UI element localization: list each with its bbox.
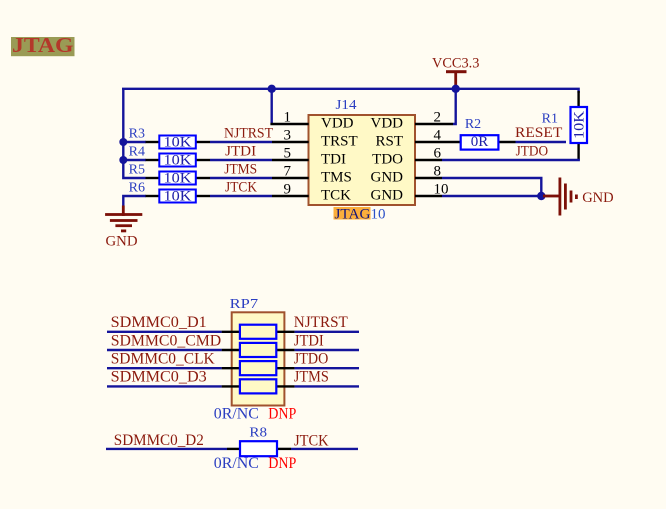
svg-text:0R/NC: 0R/NC (214, 405, 259, 422)
wire net JTDI bottom (294, 332, 359, 350)
wire net RESET (515, 125, 566, 142)
wire VCC bus horizontal (122, 89, 579, 93)
svg-text:8: 8 (434, 164, 442, 180)
ground GND left (105, 206, 142, 250)
svg-text:JTDO: JTDO (294, 351, 329, 368)
svg-text:SDMMC0_D1: SDMMC0_D1 (111, 314, 207, 331)
svg-text:VDD: VDD (371, 115, 404, 131)
resistor R5 (129, 162, 210, 186)
svg-text:2: 2 (434, 110, 442, 126)
pin 9 (272, 182, 351, 204)
resistor network RP7 (230, 297, 285, 405)
svg-text:R5: R5 (129, 162, 145, 177)
svg-text:9: 9 (284, 182, 292, 198)
svg-text:10: 10 (371, 206, 386, 222)
svg-text:GND: GND (371, 187, 404, 203)
svg-text:7: 7 (284, 164, 292, 180)
svg-text:RESET: RESET (515, 125, 562, 141)
svg-text:JTAG: JTAG (12, 33, 74, 57)
resistor R8 (227, 425, 291, 456)
svg-text:TCK: TCK (321, 187, 351, 203)
svg-text:R4: R4 (129, 145, 145, 160)
svg-text:3: 3 (284, 128, 292, 144)
ground GND right (543, 178, 614, 216)
svg-text:JTMS: JTMS (294, 369, 329, 386)
wire net JTMS (210, 161, 272, 178)
pin 5 (272, 146, 346, 168)
svg-text:6: 6 (434, 146, 442, 162)
wire net JTDO (442, 144, 580, 161)
svg-text:JTDO: JTDO (516, 144, 549, 160)
svg-text:0R: 0R (471, 134, 489, 150)
svg-text:JTCK: JTCK (225, 179, 257, 195)
resistor R3 (129, 127, 210, 151)
svg-text:10K: 10K (164, 135, 192, 151)
svg-text:R3: R3 (129, 127, 145, 142)
svg-text:JTCK: JTCK (294, 433, 329, 450)
RP7 element 1 (222, 325, 295, 339)
power symbol VCC3.3 (432, 55, 480, 89)
node junction rail R3 (119, 138, 127, 146)
svg-text:R1: R1 (542, 111, 558, 126)
svg-text:1: 1 (284, 110, 292, 126)
svg-text:SDMMC0_D2: SDMMC0_D2 (114, 432, 204, 449)
svg-text:5: 5 (284, 146, 292, 162)
svg-text:R2: R2 (465, 117, 481, 132)
wire R4 left (123, 159, 146, 161)
wire net NJTRST (210, 126, 273, 142)
wire net SDMMC0_D1 (107, 314, 222, 332)
wire net JTDI (210, 144, 272, 161)
label JTAG10 under connector (334, 206, 386, 222)
wire R6 left elbow to ground (123, 196, 146, 207)
svg-text:VDD: VDD (321, 115, 354, 131)
pin 8 (371, 164, 443, 186)
svg-text:DNP: DNP (268, 405, 296, 422)
node junction bus pin1 (268, 85, 276, 93)
wire net SDMMC0_D2 (106, 432, 227, 449)
svg-text:SDMMC0_D3: SDMMC0_D3 (111, 369, 207, 386)
pin 3 (272, 128, 358, 150)
wire net SDMMC0_D3 (107, 369, 222, 387)
svg-text:NJTRST: NJTRST (294, 314, 348, 331)
wire R3 left (123, 141, 146, 143)
svg-text:10K: 10K (572, 111, 588, 139)
svg-text:TDI: TDI (321, 151, 346, 167)
svg-text:R6: R6 (129, 180, 145, 195)
svg-text:JTMS: JTMS (224, 161, 257, 177)
resistor R6 (129, 180, 210, 204)
RP7 element 2 (222, 343, 295, 357)
pin 1 (270, 110, 353, 132)
svg-text:JTDI: JTDI (294, 332, 324, 349)
wire pin8 elbow down (442, 178, 541, 196)
svg-text:J14: J14 (336, 98, 357, 113)
svg-text:RST: RST (375, 133, 403, 149)
pin 6 (372, 146, 442, 168)
svg-text:TDO: TDO (372, 151, 403, 167)
svg-text:TRST: TRST (321, 133, 358, 149)
wire pin2 drop (453, 89, 456, 124)
wire left rail down to R5 row (123, 89, 145, 178)
node junction rail R4 (119, 156, 127, 164)
svg-text:0R/NC: 0R/NC (214, 455, 259, 472)
svg-text:VCC3.3: VCC3.3 (432, 55, 480, 71)
svg-text:SDMMC0_CMD: SDMMC0_CMD (111, 332, 222, 349)
svg-text:4: 4 (434, 128, 442, 144)
svg-text:10K: 10K (164, 189, 192, 205)
wire net JTDO bottom (294, 351, 359, 369)
svg-text:TMS: TMS (321, 169, 352, 185)
wire net NJTRST bottom (294, 314, 359, 332)
svg-text:10K: 10K (164, 153, 192, 169)
node junction pin10 (537, 192, 545, 200)
svg-text:NJTRST: NJTRST (224, 126, 273, 142)
RP7 element 4 (222, 379, 295, 393)
wire net SDMMC0_CMD (107, 332, 222, 350)
pin 4 (375, 128, 460, 150)
wire pin1 drop (271, 89, 273, 124)
svg-text:RP7: RP7 (230, 297, 258, 312)
svg-text:JTAG: JTAG (335, 206, 371, 222)
svg-text:GND: GND (106, 234, 138, 250)
node junction bus VCC (452, 85, 460, 93)
resistor R1 (542, 91, 588, 160)
svg-text:JTDI: JTDI (225, 144, 256, 160)
wire net SDMMC0_CLK (107, 351, 222, 369)
resistor R4 (129, 145, 210, 169)
svg-text:GND: GND (582, 190, 614, 206)
wire pin10 to ground (442, 195, 541, 197)
pin 10 (371, 182, 449, 204)
pin 7 (272, 164, 352, 186)
wire net JTMS bottom (294, 369, 359, 387)
svg-text:DNP: DNP (268, 455, 296, 472)
wire net JTCK bottom (291, 433, 358, 450)
wire net JTCK (210, 179, 272, 196)
svg-text:GND: GND (371, 169, 404, 185)
svg-text:10K: 10K (164, 171, 192, 187)
resistor R2 (461, 117, 516, 150)
connector J14 (309, 98, 416, 205)
svg-text:R8: R8 (249, 425, 267, 440)
RP7 element 3 (222, 361, 295, 375)
svg-text:SDMMC0_CLK: SDMMC0_CLK (111, 351, 215, 368)
pin 2 (371, 110, 454, 132)
title JTAG (11, 33, 75, 57)
